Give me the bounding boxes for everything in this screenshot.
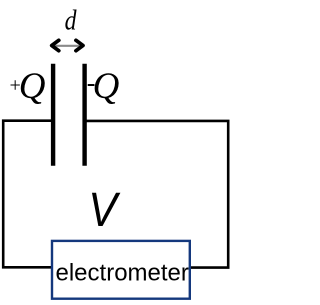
capacitor plate right [82,64,86,166]
wire: right loop from right plate down to electrometer [85,121,228,268]
electrometer box [52,241,190,299]
svg-text:d: d [65,3,78,36]
wire: gray arrow shaft [54,45,80,47]
svg-text:electrometer: electrometer [56,259,189,286]
dimension arrow for d (double-headed, gray shaft) [52,40,83,50]
left arrowhead [52,40,59,50]
svg-text:Q: Q [93,66,120,107]
wire: left loop from left plate down to electrometer [3,121,53,268]
svg-text:Q: Q [19,66,46,107]
svg-text:V: V [88,183,120,237]
capacitor plate left [51,64,55,166]
right arrowhead [76,40,83,50]
